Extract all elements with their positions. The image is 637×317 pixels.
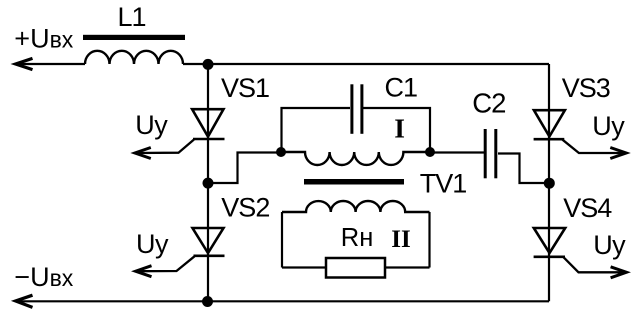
svg-text:Rн: Rн (341, 224, 374, 252)
capacitor C2 wires (430, 153, 549, 184)
svg-text:VS2: VS2 (221, 192, 269, 222)
capacitor C2 (485, 129, 496, 178)
thyristor VS3 (534, 110, 627, 158)
wire right rail (548, 64, 550, 301)
wire top rail (18, 63, 85, 65)
arrow left output (16, 295, 33, 307)
thyristor VS1 (135, 109, 225, 158)
thyristor VS2 (136, 228, 225, 277)
wire secondary loop right (428, 212, 430, 268)
wire left rail (207, 64, 209, 301)
svg-text:Uy: Uy (593, 230, 626, 260)
wire secondary loop bottom (282, 266, 430, 268)
svg-text:TV1: TV1 (420, 169, 467, 199)
transformer TV1 primary winding (281, 152, 430, 165)
svg-text:VS1: VS1 (221, 73, 269, 103)
svg-text:VS3: VS3 (562, 73, 610, 103)
transformer TV1 core bar (304, 179, 404, 185)
svg-text:L1: L1 (118, 2, 146, 32)
svg-text:Uy: Uy (592, 111, 625, 141)
node primary right junction (425, 147, 435, 157)
wire secondary loop left (281, 212, 283, 268)
wire bottom rail (18, 300, 549, 302)
resistor Rn (326, 258, 385, 278)
svg-text:Uy: Uy (135, 110, 168, 140)
arrow left input (16, 58, 33, 69)
svg-text:C2: C2 (472, 88, 505, 119)
thyristor VS4 (534, 228, 627, 278)
node bottom left junction (202, 296, 213, 307)
svg-text:−Uвх: −Uвх (14, 262, 74, 292)
svg-text:I: I (394, 113, 405, 144)
svg-text:C1: C1 (385, 73, 418, 103)
wire link left rail to primary (208, 153, 281, 184)
transformer TV1 secondary winding (282, 201, 430, 212)
node primary left junction (276, 147, 286, 157)
capacitor C1 branch wires (282, 108, 431, 153)
inductor L1 core bar (83, 35, 185, 40)
wire top rail right (183, 63, 549, 65)
node right mid junction (544, 178, 555, 189)
node left mid junction (203, 178, 214, 189)
svg-text:II: II (391, 226, 410, 253)
node top left junction (203, 59, 214, 70)
capacitor C1 (352, 84, 362, 134)
inductor L1 (85, 51, 183, 64)
svg-text:VS4: VS4 (563, 193, 612, 223)
svg-text:Uy: Uy (136, 229, 169, 259)
svg-text:+Uвх: +Uвх (14, 24, 74, 54)
